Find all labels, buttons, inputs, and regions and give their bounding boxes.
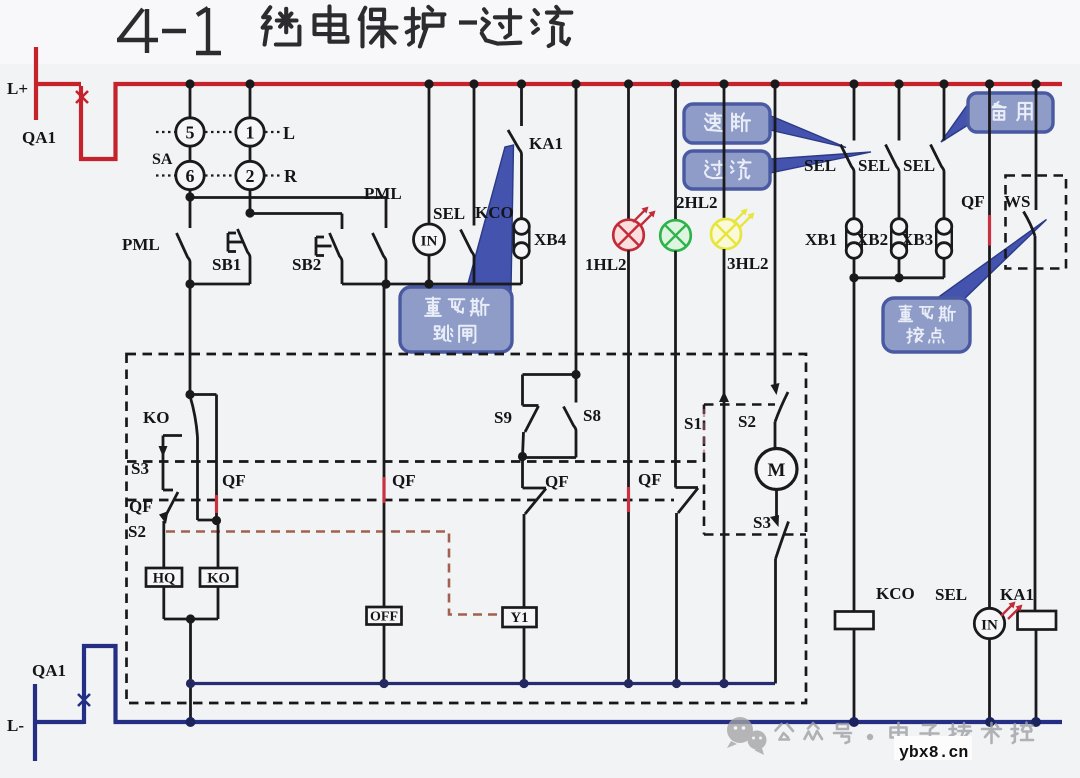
svg-text:ybx8.cn: ybx8.cn <box>899 743 968 762</box>
svg-text:KO: KO <box>143 408 169 427</box>
svg-text:SEL: SEL <box>804 156 836 175</box>
svg-text:QF: QF <box>961 192 985 211</box>
svg-text:PML: PML <box>364 184 402 203</box>
svg-text:S3: S3 <box>753 513 771 532</box>
svg-text:SB2: SB2 <box>292 255 321 274</box>
svg-text:L+: L+ <box>7 79 28 98</box>
svg-text:QA1: QA1 <box>22 128 56 147</box>
svg-text:PML: PML <box>122 235 160 254</box>
svg-text:R: R <box>284 166 298 186</box>
svg-text:5: 5 <box>186 123 195 143</box>
svg-text:M: M <box>768 460 786 481</box>
svg-text:KCO: KCO <box>876 584 915 603</box>
svg-text:3HL2: 3HL2 <box>727 254 769 273</box>
svg-text:KA1: KA1 <box>1000 585 1034 604</box>
svg-text:XB3: XB3 <box>901 230 933 249</box>
svg-text:S1: S1 <box>684 414 702 433</box>
svg-text:SA: SA <box>152 151 173 168</box>
svg-text:L: L <box>283 123 295 143</box>
svg-text:2: 2 <box>246 166 255 186</box>
svg-text:QF: QF <box>638 470 662 489</box>
svg-text:QA1: QA1 <box>32 661 66 680</box>
svg-text:Y1: Y1 <box>511 610 529 626</box>
svg-text:S3: S3 <box>131 459 149 478</box>
svg-text:HQ: HQ <box>153 571 176 587</box>
svg-text:KO: KO <box>207 571 230 587</box>
svg-text:KA1: KA1 <box>529 134 563 153</box>
svg-text:QF: QF <box>545 472 569 491</box>
svg-text:IN: IN <box>421 234 438 250</box>
svg-text:QF: QF <box>222 471 246 490</box>
svg-text:SEL: SEL <box>903 156 935 175</box>
svg-text:XB1: XB1 <box>805 230 837 249</box>
svg-text:SEL: SEL <box>935 585 967 604</box>
svg-text:KCO: KCO <box>475 203 514 222</box>
svg-text:S2: S2 <box>128 522 146 541</box>
svg-text:IN: IN <box>981 618 998 634</box>
svg-text:SEL: SEL <box>433 204 465 223</box>
svg-text:OFF: OFF <box>370 610 398 625</box>
svg-text:L-: L- <box>7 716 24 735</box>
svg-text:XB4: XB4 <box>534 230 567 249</box>
svg-text:QF: QF <box>392 471 416 490</box>
svg-text:S9: S9 <box>494 408 512 427</box>
svg-text:2HL2: 2HL2 <box>676 193 718 212</box>
svg-text:S2: S2 <box>738 412 756 431</box>
svg-text:6: 6 <box>186 166 195 186</box>
svg-text:SEL: SEL <box>858 156 890 175</box>
svg-text:1: 1 <box>246 123 255 143</box>
svg-text:XB2: XB2 <box>856 230 888 249</box>
svg-text:QF: QF <box>129 497 153 516</box>
svg-text:1HL2: 1HL2 <box>585 255 627 274</box>
svg-text:SB1: SB1 <box>212 255 241 274</box>
svg-text:WS: WS <box>1004 192 1030 211</box>
svg-text:S8: S8 <box>583 406 601 425</box>
